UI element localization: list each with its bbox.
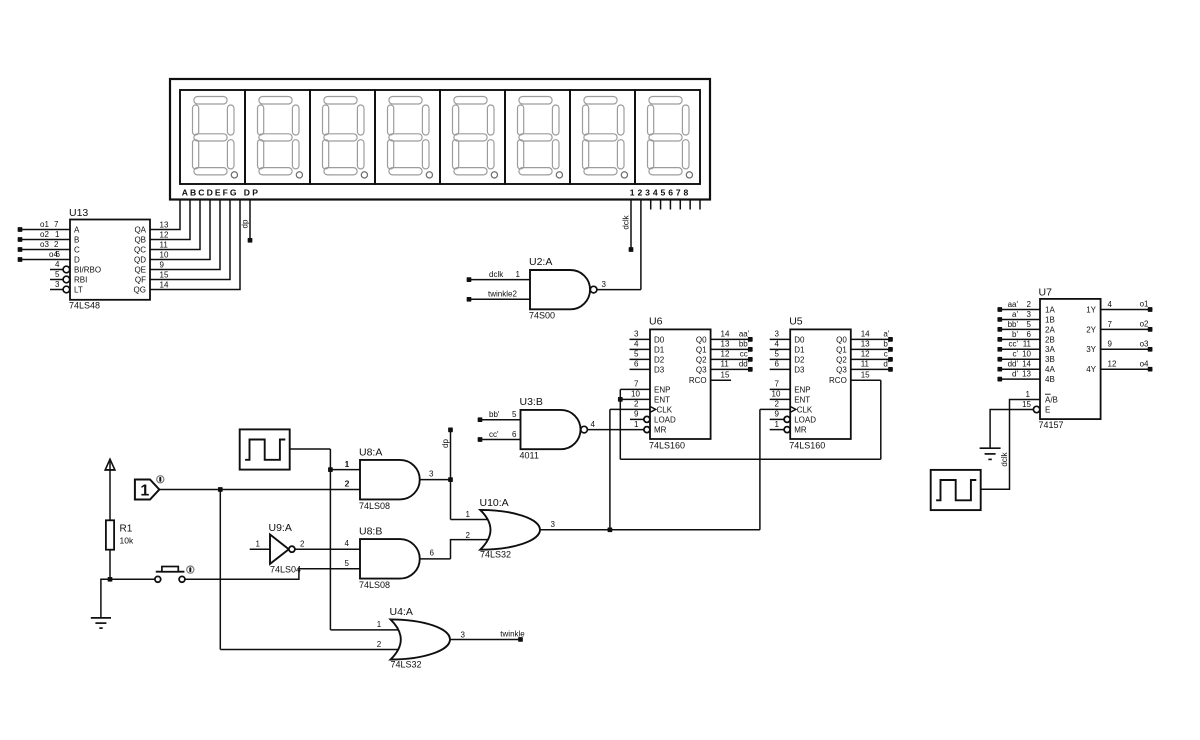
svg-text:15: 15 — [1022, 400, 1031, 409]
svg-text:11: 11 — [160, 241, 169, 250]
svg-text:Q2: Q2 — [836, 355, 847, 364]
svg-text:MR: MR — [654, 426, 667, 435]
svg-text:QE: QE — [134, 265, 146, 274]
svg-text:RCO: RCO — [689, 376, 707, 385]
svg-text:10: 10 — [160, 251, 169, 260]
svg-text:RCO: RCO — [829, 376, 847, 385]
svg-text:7: 7 — [775, 380, 780, 389]
svg-text:3Y: 3Y — [1086, 345, 1096, 354]
svg-text:10: 10 — [772, 390, 781, 399]
svg-text:74LS160: 74LS160 — [789, 441, 825, 451]
svg-text:ENT: ENT — [794, 395, 810, 404]
svg-text:4: 4 — [775, 340, 780, 349]
svg-text:U9:A: U9:A — [269, 522, 292, 534]
svg-text:Q1: Q1 — [696, 345, 707, 354]
svg-text:b': b' — [883, 340, 889, 349]
svg-text:QD: QD — [134, 255, 146, 264]
svg-text:5: 5 — [512, 410, 517, 419]
svg-text:d': d' — [883, 360, 889, 369]
svg-text:74LS08: 74LS08 — [359, 580, 390, 590]
svg-text:1: 1 — [1026, 390, 1031, 399]
svg-text:a': a' — [883, 330, 889, 339]
svg-text:1: 1 — [55, 230, 60, 239]
svg-text:MR: MR — [794, 426, 807, 435]
svg-text:U10:A: U10:A — [480, 497, 509, 509]
svg-text:2Y: 2Y — [1086, 325, 1096, 334]
svg-text:4: 4 — [591, 420, 596, 429]
svg-text:1A: 1A — [1045, 305, 1055, 314]
svg-text:QB: QB — [134, 235, 146, 244]
svg-text:3B: 3B — [1045, 355, 1055, 364]
svg-text:U3:B: U3:B — [520, 396, 543, 408]
svg-text:c': c' — [884, 350, 890, 359]
svg-text:U2:A: U2:A — [529, 256, 552, 268]
svg-text:9: 9 — [160, 261, 165, 270]
svg-text:10: 10 — [1022, 350, 1031, 359]
svg-text:Q2: Q2 — [696, 355, 707, 364]
svg-text:6: 6 — [430, 549, 435, 558]
svg-text:2: 2 — [345, 480, 350, 489]
svg-text:74LS08: 74LS08 — [359, 501, 390, 511]
svg-text:6: 6 — [775, 360, 780, 369]
svg-text:12: 12 — [1108, 360, 1117, 369]
svg-text:C: C — [74, 245, 80, 254]
svg-text:1: 1 — [466, 510, 471, 519]
svg-text:3: 3 — [461, 630, 466, 639]
svg-text:aa': aa' — [739, 330, 750, 339]
svg-text:11: 11 — [861, 360, 870, 369]
svg-text:B: B — [74, 235, 79, 244]
svg-text:3: 3 — [551, 520, 556, 529]
svg-text:4Y: 4Y — [1086, 365, 1096, 374]
svg-text:LOAD: LOAD — [654, 415, 676, 424]
svg-text:4011: 4011 — [520, 451, 539, 461]
svg-text:D0: D0 — [654, 335, 665, 344]
svg-text:d': d' — [1012, 370, 1018, 379]
svg-text:b': b' — [1012, 330, 1018, 339]
svg-text:cc': cc' — [1008, 340, 1018, 349]
svg-text:3: 3 — [1027, 310, 1032, 319]
svg-text:D0: D0 — [794, 335, 805, 344]
svg-text:D2: D2 — [654, 355, 665, 364]
svg-text:DP: DP — [244, 188, 260, 198]
svg-text:1Y: 1Y — [1086, 305, 1096, 314]
svg-text:1: 1 — [345, 460, 350, 469]
svg-text:3: 3 — [429, 470, 434, 479]
svg-text:Q1: Q1 — [836, 345, 847, 354]
svg-text:dd': dd' — [1008, 360, 1019, 369]
svg-text:1: 1 — [516, 270, 521, 279]
svg-text:11: 11 — [721, 360, 730, 369]
svg-text:U8:A: U8:A — [359, 446, 382, 458]
svg-text:6: 6 — [634, 360, 639, 369]
svg-text:LOAD: LOAD — [794, 415, 816, 424]
svg-text:dp: dp — [441, 439, 450, 448]
svg-text:2: 2 — [300, 540, 305, 549]
svg-text:2: 2 — [634, 400, 639, 409]
svg-text:12345678: 12345678 — [630, 188, 691, 198]
svg-text:12: 12 — [861, 350, 870, 359]
svg-text:o2: o2 — [1140, 320, 1149, 329]
svg-text:A/B: A/B — [1045, 395, 1058, 404]
svg-text:ENT: ENT — [654, 395, 670, 404]
svg-text:U13: U13 — [69, 207, 88, 219]
svg-text:74157: 74157 — [1039, 420, 1064, 430]
svg-text:11: 11 — [1023, 340, 1032, 349]
svg-text:dclk: dclk — [621, 214, 630, 229]
svg-text:10k: 10k — [120, 535, 134, 545]
svg-text:QG: QG — [134, 285, 146, 294]
svg-text:9: 9 — [775, 410, 780, 419]
svg-text:Q0: Q0 — [696, 335, 707, 344]
svg-text:U5: U5 — [789, 316, 803, 328]
svg-text:15: 15 — [721, 371, 730, 380]
svg-text:bb': bb' — [1008, 320, 1019, 329]
svg-text:12: 12 — [721, 350, 730, 359]
svg-text:ENP: ENP — [654, 385, 670, 394]
svg-text:2: 2 — [775, 400, 780, 409]
svg-text:74LS32: 74LS32 — [480, 550, 511, 560]
svg-text:13: 13 — [1022, 370, 1031, 379]
svg-text:dp: dp — [241, 219, 250, 228]
svg-text:twinkle2: twinkle2 — [488, 290, 517, 299]
svg-text:dclk: dclk — [489, 270, 504, 279]
svg-text:7: 7 — [634, 380, 639, 389]
svg-text:15: 15 — [861, 371, 870, 380]
svg-text:5: 5 — [775, 350, 780, 359]
svg-text:cc': cc' — [740, 350, 750, 359]
svg-text:dclk: dclk — [1000, 451, 1009, 466]
svg-text:7: 7 — [54, 220, 59, 229]
svg-text:5: 5 — [345, 559, 350, 568]
svg-text:3: 3 — [775, 330, 780, 339]
svg-text:74LS48: 74LS48 — [69, 301, 100, 311]
svg-text:ABCDEFG: ABCDEFG — [182, 188, 239, 198]
svg-text:E: E — [1045, 405, 1050, 414]
svg-text:10: 10 — [631, 390, 640, 399]
svg-text:1: 1 — [377, 620, 382, 629]
svg-text:2: 2 — [1027, 300, 1032, 309]
svg-text:9: 9 — [634, 410, 639, 419]
svg-text:RBI: RBI — [74, 275, 87, 284]
svg-text:3: 3 — [634, 330, 639, 339]
svg-text:cc': cc' — [489, 430, 499, 439]
svg-text:o3: o3 — [40, 240, 49, 249]
svg-text:3: 3 — [602, 280, 607, 289]
svg-text:1B: 1B — [1045, 315, 1055, 324]
svg-text:D3: D3 — [654, 365, 665, 374]
svg-text:4: 4 — [345, 539, 350, 548]
svg-text:15: 15 — [160, 271, 169, 280]
svg-text:4: 4 — [1108, 300, 1113, 309]
svg-text:QC: QC — [134, 245, 146, 254]
svg-text:1: 1 — [140, 482, 149, 499]
svg-text:2B: 2B — [1045, 335, 1055, 344]
svg-text:D1: D1 — [654, 345, 665, 354]
svg-text:14: 14 — [721, 330, 730, 339]
svg-text:QA: QA — [134, 225, 146, 234]
svg-text:1: 1 — [775, 420, 780, 429]
svg-text:6: 6 — [1027, 330, 1032, 339]
svg-text:QF: QF — [135, 275, 146, 284]
svg-text:D3: D3 — [794, 365, 805, 374]
svg-text:1: 1 — [634, 420, 639, 429]
svg-text:A: A — [74, 225, 80, 234]
svg-text:74LS04: 74LS04 — [270, 564, 301, 574]
svg-text:2: 2 — [466, 531, 471, 540]
svg-text:13: 13 — [721, 340, 730, 349]
svg-text:2A: 2A — [1045, 325, 1055, 334]
svg-text:9: 9 — [1108, 340, 1113, 349]
svg-text:14: 14 — [1022, 360, 1031, 369]
svg-text:3: 3 — [55, 280, 60, 289]
svg-text:bb': bb' — [739, 340, 750, 349]
svg-text:CLK: CLK — [657, 405, 673, 414]
svg-text:a': a' — [1012, 310, 1018, 319]
svg-text:2: 2 — [377, 640, 382, 649]
svg-text:6: 6 — [56, 250, 61, 259]
svg-text:o1: o1 — [40, 220, 49, 229]
svg-text:4: 4 — [634, 340, 639, 349]
svg-text:13: 13 — [861, 340, 870, 349]
svg-text:Q3: Q3 — [836, 365, 847, 374]
svg-text:BI/RBO: BI/RBO — [74, 265, 101, 274]
svg-text:LT: LT — [74, 285, 83, 294]
svg-text:D: D — [74, 255, 80, 264]
svg-text:c': c' — [1012, 350, 1018, 359]
svg-text:o4: o4 — [1140, 359, 1149, 368]
svg-text:Q0: Q0 — [836, 335, 847, 344]
svg-text:D2: D2 — [794, 355, 805, 364]
svg-text:12: 12 — [160, 231, 169, 240]
svg-text:74LS32: 74LS32 — [391, 659, 422, 669]
svg-text:dd': dd' — [739, 360, 750, 369]
svg-text:Q3: Q3 — [696, 365, 707, 374]
svg-text:4: 4 — [55, 260, 60, 269]
svg-text:D1: D1 — [794, 345, 805, 354]
svg-text:7: 7 — [1108, 320, 1113, 329]
svg-text:o2: o2 — [40, 230, 49, 239]
svg-text:74LS160: 74LS160 — [649, 441, 685, 451]
svg-text:4B: 4B — [1045, 375, 1055, 384]
svg-text:14: 14 — [861, 330, 870, 339]
svg-text:CLK: CLK — [797, 405, 813, 414]
svg-text:U8:B: U8:B — [359, 525, 382, 537]
svg-text:5: 5 — [55, 270, 60, 279]
svg-text:6: 6 — [512, 430, 517, 439]
svg-text:bb': bb' — [489, 410, 500, 419]
svg-text:14: 14 — [160, 281, 169, 290]
svg-text:twinkle: twinkle — [500, 630, 525, 639]
svg-text:5: 5 — [634, 350, 639, 359]
svg-text:R1: R1 — [120, 524, 133, 535]
svg-text:5: 5 — [1027, 320, 1032, 329]
svg-text:aa': aa' — [1008, 300, 1019, 309]
svg-text:2: 2 — [54, 240, 59, 249]
svg-text:o3: o3 — [1140, 340, 1149, 349]
svg-text:74S00: 74S00 — [529, 311, 555, 321]
svg-text:U4:A: U4:A — [390, 606, 413, 618]
svg-text:U6: U6 — [649, 316, 663, 328]
svg-text:13: 13 — [160, 221, 169, 230]
svg-text:o1: o1 — [1140, 300, 1149, 309]
svg-text:ENP: ENP — [794, 385, 810, 394]
svg-text:1: 1 — [256, 539, 261, 548]
svg-text:3A: 3A — [1045, 345, 1055, 354]
svg-text:U7: U7 — [1039, 286, 1053, 298]
svg-text:4A: 4A — [1045, 365, 1055, 374]
